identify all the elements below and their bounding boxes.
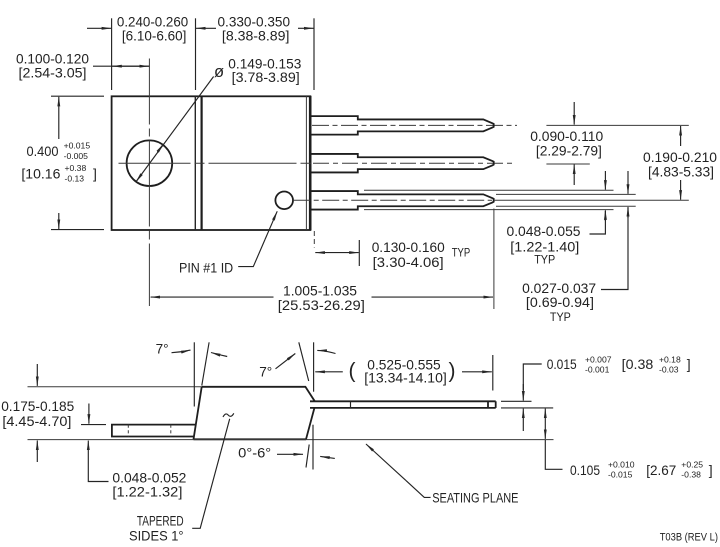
tapered sides leader — [192, 419, 230, 529]
svg-text:+0.25: +0.25 — [681, 460, 703, 470]
hole horizontal centerline — [119, 162, 312, 164]
lead top extension line right — [501, 400, 532, 402]
dim 0.525-0.555 right extension line — [492, 355, 494, 391]
side view lead bottom line — [310, 407, 496, 409]
dim 0.240-0.260 extension line left — [111, 18, 113, 90]
tab top extension line — [81, 424, 106, 426]
svg-text:[3.30-4.06]: [3.30-4.06] — [373, 254, 444, 270]
lead bottom extension line right — [501, 407, 553, 409]
svg-text:-0.38: -0.38 — [681, 470, 701, 480]
svg-text:0.175-0.185: 0.175-0.185 — [1, 398, 74, 414]
side view tab outline — [112, 425, 196, 437]
dim 0.015 up arrow — [522, 409, 524, 431]
side view body left edge — [194, 387, 202, 440]
0-6 deg vertical line — [312, 425, 314, 470]
dim 1.005-1.035 line left — [151, 296, 274, 298]
dim arrow into left line — [87, 27, 111, 29]
body step line 2 — [201, 96, 203, 230]
dim 0.130-0.160 arrows — [315, 252, 337, 254]
svg-text:ø: ø — [214, 63, 224, 81]
pin 1 id circle — [275, 192, 293, 210]
lead 2 short reference line — [546, 163, 589, 165]
dim 0.048-0.055 leader with up arrow — [590, 211, 606, 234]
svg-text:0.090-0.110: 0.090-0.110 — [530, 128, 603, 144]
lead tip vertical reference line — [493, 209, 495, 310]
svg-text:+0.38: +0.38 — [65, 163, 87, 173]
7 deg right leader arrow — [276, 354, 296, 369]
svg-text:TYP: TYP — [534, 252, 555, 266]
svg-text:0.015: 0.015 — [547, 356, 577, 372]
dim 0.015 leader with down arrow — [523, 364, 541, 390]
svg-text:[0.69-0.94]: [0.69-0.94] — [526, 294, 594, 310]
svg-text:-0.13: -0.13 — [65, 173, 85, 183]
dim 0.400 bottom extension line — [51, 229, 104, 231]
mounting hole circle — [127, 140, 173, 186]
svg-text:0.400: 0.400 — [27, 143, 59, 159]
svg-text:TYP: TYP — [550, 310, 571, 324]
dim 0.048-0.052 down arrow — [88, 404, 90, 424]
svg-text:]: ] — [709, 462, 713, 478]
svg-text:0.105: 0.105 — [570, 462, 600, 478]
side view top reference line — [28, 386, 202, 388]
dim 0.525-0.555 right arrow — [462, 371, 492, 373]
svg-text:[10.16: [10.16 — [21, 165, 60, 181]
svg-text:(: ( — [349, 360, 356, 383]
svg-text:+0.010: +0.010 — [608, 460, 635, 470]
svg-text:): ) — [449, 360, 456, 383]
dim 0.090-0.110 up arrow — [573, 165, 575, 186]
svg-text:[8.38-8.89]: [8.38-8.89] — [222, 28, 290, 44]
svg-text:0.048-0.055: 0.048-0.055 — [507, 223, 581, 239]
7 deg right vertical reference line — [313, 342, 315, 391]
dim 0.175-0.185 arrows — [36, 364, 38, 386]
side view lead top line — [310, 400, 496, 402]
package body top view outline — [112, 96, 311, 230]
7 deg left right-side arrow — [211, 353, 227, 357]
dim 0.400 arrows — [58, 97, 60, 139]
body inner line near right edge — [305, 96, 307, 230]
svg-text:TAPERED: TAPERED — [137, 512, 184, 528]
svg-text:-0.001: -0.001 — [585, 365, 610, 375]
svg-text:7°: 7° — [156, 341, 169, 357]
dim arrow into middle line — [196, 27, 216, 29]
tab tick marks — [127, 425, 129, 437]
lead 1 center reference line — [546, 124, 688, 126]
dim 0.130-0.160 right extension line — [358, 240, 360, 266]
svg-text:7°: 7° — [259, 363, 272, 379]
dim 0.100-0.120 line — [93, 65, 149, 67]
svg-text:[4.45-4.70]: [4.45-4.70] — [2, 413, 71, 429]
svg-text:[2.29-2.79]: [2.29-2.79] — [536, 143, 602, 159]
hole vertical centerline — [148, 59, 150, 307]
7 deg right right-side arrow — [317, 350, 335, 353]
lead 3 narrow envelope lines — [496, 193, 636, 195]
svg-text:[2.67: [2.67 — [646, 462, 676, 478]
svg-text:[3.78-3.89]: [3.78-3.89] — [232, 69, 300, 85]
7 deg left slanted line — [202, 342, 209, 385]
body right edge thick line — [309, 96, 312, 231]
dim 0.525-0.555 left arrow — [315, 371, 343, 373]
svg-text:PIN #1 ID: PIN #1 ID — [179, 260, 233, 276]
lead 3 centerline — [293, 199, 492, 201]
svg-text:-0.03: -0.03 — [659, 365, 679, 375]
dim arrow into right line — [298, 27, 314, 29]
body step line 1 — [194, 96, 196, 230]
dim 0.048-0.055 down arrow — [604, 171, 606, 190]
lead 1 centerline — [312, 124, 517, 126]
dim 0.105 double arrow — [544, 409, 546, 423]
7 deg right slanted line — [299, 342, 309, 381]
seating plane leader — [406, 481, 431, 498]
lead 3 outline — [312, 191, 494, 210]
svg-text:TYP: TYP — [452, 246, 471, 260]
svg-text:[25.53-26.29]: [25.53-26.29] — [278, 297, 365, 313]
svg-text:-0.005: -0.005 — [64, 151, 89, 161]
dim extension line right — [313, 18, 315, 90]
svg-text:+0.015: +0.015 — [64, 140, 91, 150]
svg-text:]: ] — [687, 356, 691, 372]
dim 0.090-0.110 down arrow — [573, 102, 575, 125]
svg-text:+0.007: +0.007 — [585, 355, 612, 365]
side view lead tick — [350, 401, 352, 408]
dim 0.027-0.037 down arrow — [627, 171, 629, 194]
0-6 deg slanted line — [306, 445, 309, 468]
svg-text:[4.83-5.33]: [4.83-5.33] — [648, 163, 714, 179]
dim 1.005-1.035 line right — [372, 296, 494, 298]
svg-text:SEATING PLANE: SEATING PLANE — [432, 489, 518, 505]
lead 3 wide envelope lines — [364, 189, 614, 191]
7 deg left leader arrow — [172, 350, 191, 353]
svg-text:[2.54-3.05]: [2.54-3.05] — [19, 64, 87, 80]
dashed extension below body right edge — [313, 231, 315, 248]
0-6 deg leader arrow — [277, 453, 303, 455]
svg-text:0°-6°: 0°-6° — [238, 445, 271, 461]
side view body outline — [194, 387, 315, 440]
dim 0.048-0.052 up arrow with elbow — [87, 441, 89, 474]
svg-text:[1.22-1.32]: [1.22-1.32] — [112, 483, 182, 499]
svg-text:[0.38: [0.38 — [622, 356, 654, 372]
dim 0.190-0.210 arrows — [680, 126, 682, 146]
svg-text:SIDES 1°: SIDES 1° — [129, 527, 184, 543]
svg-text:]: ] — [93, 165, 97, 181]
svg-text:[6.10-6.60]: [6.10-6.60] — [122, 28, 186, 44]
seating plane line — [28, 439, 554, 441]
side view lead tip ticks — [487, 401, 489, 408]
svg-text:[13.34-14.10]: [13.34-14.10] — [364, 369, 447, 385]
0-6 deg right arrow — [320, 456, 335, 458]
dim 0.400 top extension line — [51, 95, 104, 97]
svg-text:+0.18: +0.18 — [659, 355, 681, 365]
lead 3 center solid extension — [494, 199, 689, 201]
svg-text:-0.015: -0.015 — [608, 470, 633, 480]
svg-text:T03B (REV L): T03B (REV L) — [660, 532, 718, 544]
squiggle on body face — [223, 413, 234, 417]
hole diameter leader line — [136, 77, 214, 182]
dim 0.027-0.037 leader with up arrow — [601, 208, 628, 290]
pin 1 id leader — [238, 240, 265, 267]
dim extension line middle — [195, 18, 197, 90]
lead 1 outline — [312, 116, 494, 134]
dim 0.105 elbow leader — [545, 440, 562, 470]
svg-text:0.130-0.160: 0.130-0.160 — [372, 239, 445, 255]
7 deg left vertical reference line — [193, 342, 195, 406]
lead 2 outline — [312, 154, 494, 173]
